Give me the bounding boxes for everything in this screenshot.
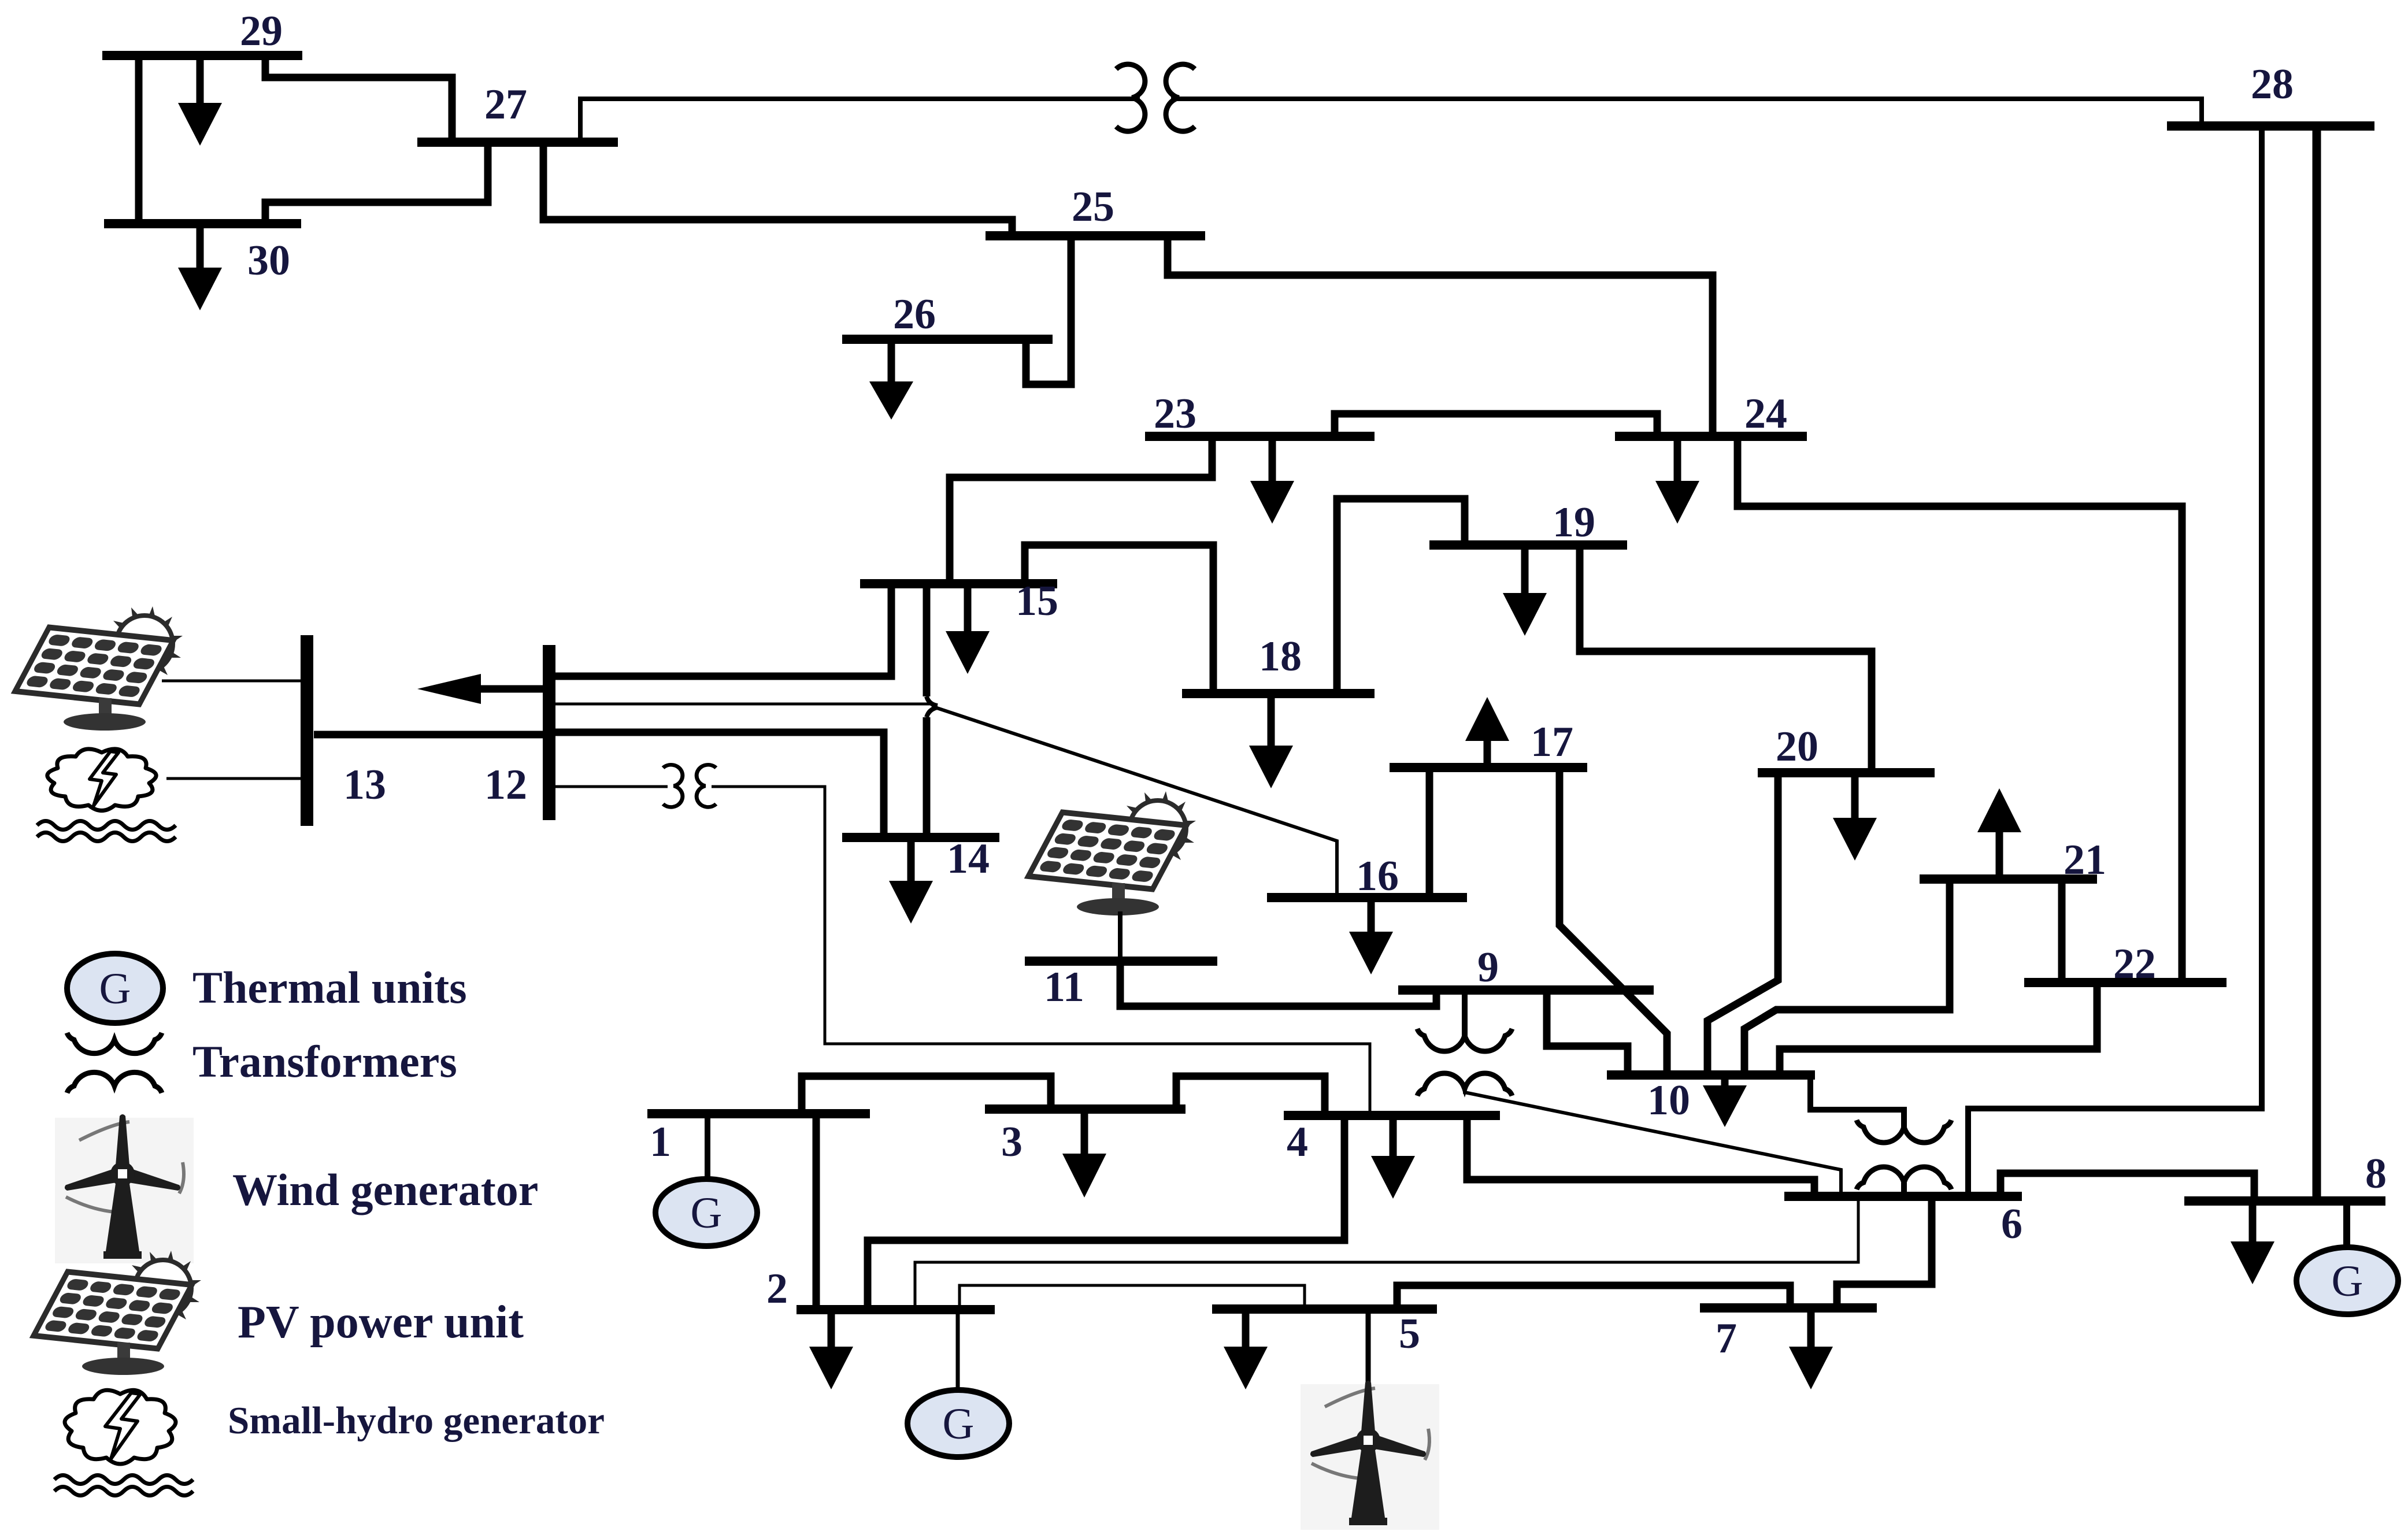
svg-text:24: 24 xyxy=(1744,390,1787,438)
svg-text:25: 25 xyxy=(1072,183,1114,231)
wire 2-6 (thin) xyxy=(915,1196,1858,1310)
thermal unit G1 (bus 1) xyxy=(655,1179,757,1246)
wire 20-10 xyxy=(1707,773,1778,1075)
svg-text:3: 3 xyxy=(1001,1118,1023,1166)
load arrow bus 14 xyxy=(889,835,990,924)
wire 4-6 xyxy=(1467,1115,1814,1196)
legend text Thermal units xyxy=(192,962,467,1013)
svg-text:6: 6 xyxy=(2001,1200,2022,1248)
bus 11 xyxy=(1025,961,1217,1011)
wire 27-28 left xyxy=(580,99,1140,142)
wire 6-28 xyxy=(1968,126,2262,1196)
bus 18 xyxy=(1182,633,1375,694)
load arrow bus 8 xyxy=(2231,1201,2274,1284)
legend wind generator symbol xyxy=(55,1114,194,1263)
wire node-16 diagonal xyxy=(932,706,1337,898)
load arrow bus 18 xyxy=(1249,694,1293,788)
wire T69-6 diagonal xyxy=(1465,1089,1841,1196)
wire 10-T610 xyxy=(1810,1075,1904,1127)
wire bus2-G2 xyxy=(956,1310,960,1392)
wire 15-14 via node xyxy=(927,584,938,837)
wire 2-5 (thin) xyxy=(960,1285,1305,1310)
legend PV power unit symbol xyxy=(34,1251,201,1375)
wire 9-10 xyxy=(1547,990,1628,1075)
svg-text:13: 13 xyxy=(343,761,386,809)
wire 11-9 xyxy=(1120,961,1436,1006)
load arrow bus 29 xyxy=(178,55,222,146)
wire 3-4 xyxy=(1176,1076,1325,1115)
legend text Transformers xyxy=(192,1036,457,1087)
transformer T6-10 xyxy=(1857,1120,1951,1189)
svg-text:15: 15 xyxy=(1016,577,1058,625)
bus 29 xyxy=(102,8,302,55)
bus 23 xyxy=(1145,390,1375,438)
svg-text:12: 12 xyxy=(484,761,527,809)
svg-text:10: 10 xyxy=(1647,1077,1690,1124)
thermal unit G2 (bus 2) xyxy=(907,1390,1009,1457)
bus 5 xyxy=(1212,1309,1437,1358)
bus 25 xyxy=(986,183,1205,236)
svg-text:Transformers: Transformers xyxy=(192,1036,457,1087)
bus 16 xyxy=(1267,852,1467,900)
wire 29-27 xyxy=(265,55,452,142)
wire bus1-G1 xyxy=(705,1114,710,1179)
wire 12-T412 xyxy=(555,785,668,788)
wire 1-2 xyxy=(813,1114,820,1310)
wind generator at bus 5 xyxy=(1301,1381,1439,1530)
load arrow bus 24 xyxy=(1655,436,1699,524)
load arrow bus 2 xyxy=(809,1310,853,1389)
svg-text:4: 4 xyxy=(1287,1118,1308,1166)
bus 17 xyxy=(1390,718,1587,768)
wire 19-20 xyxy=(1580,545,1872,773)
PV power unit at bus 13 xyxy=(15,606,183,731)
svg-text:8: 8 xyxy=(2365,1150,2387,1198)
wire 17-10 xyxy=(1559,768,1667,1075)
svg-text:21: 21 xyxy=(2064,836,2106,884)
wire 6-7 xyxy=(1837,1196,1932,1308)
wire 23-24 xyxy=(1335,414,1657,436)
svg-text:14: 14 xyxy=(947,835,990,883)
load arrow bus 26 xyxy=(869,339,913,420)
bus 21 xyxy=(1920,836,2106,884)
transformer T6-9 xyxy=(1417,1029,1512,1096)
bus 24 xyxy=(1615,390,1807,438)
load arrow bus 23 xyxy=(1250,436,1294,524)
legend small-hydro symbol xyxy=(54,1390,193,1495)
bus 26 xyxy=(842,291,1053,339)
legend text Small-hydro generator xyxy=(228,1399,605,1442)
wire 5-7 xyxy=(1397,1285,1790,1309)
bus 2 xyxy=(766,1265,995,1313)
svg-text:5: 5 xyxy=(1399,1310,1420,1358)
wire 27-28 right xyxy=(1171,99,2202,126)
svg-text:16: 16 xyxy=(1356,852,1399,900)
svg-text:PV power unit: PV power unit xyxy=(238,1297,524,1348)
bus 3 xyxy=(985,1109,1186,1166)
legend thermal units symbol xyxy=(67,954,163,1023)
load arrow bus 19 xyxy=(1503,545,1547,636)
wire 24-22 xyxy=(1738,436,2182,983)
bus 8 xyxy=(2184,1150,2387,1201)
svg-text:17: 17 xyxy=(1531,718,1573,766)
wire 9-T69 xyxy=(1462,990,1468,1036)
load arrow bus 15 xyxy=(946,584,990,674)
transformer T4-12 xyxy=(663,765,716,807)
svg-text:27: 27 xyxy=(484,81,527,128)
wire T412-4 (thin) xyxy=(712,787,1370,1115)
load arrow bus 5 xyxy=(1224,1309,1268,1389)
wire 8-28 xyxy=(2313,126,2321,1201)
bus 7 xyxy=(1700,1308,1877,1362)
wire 12-14 xyxy=(549,732,884,837)
svg-text:19: 19 xyxy=(1553,499,1595,546)
wire hydro-13 xyxy=(166,777,301,780)
wire 27-25 xyxy=(543,142,1012,236)
wire 29-30 xyxy=(135,55,143,224)
wire 22-10 xyxy=(1780,983,2097,1075)
wire 12-15 xyxy=(549,584,891,676)
svg-text:1: 1 xyxy=(650,1118,671,1166)
bus 19 xyxy=(1429,499,1627,546)
wire 12-node (thin) xyxy=(549,703,932,706)
wire 27-30 xyxy=(265,142,488,224)
wire 16-17 xyxy=(1426,768,1433,898)
svg-text:G: G xyxy=(2332,1257,2363,1306)
wire 12-13 xyxy=(314,731,543,739)
bus 13 (vertical) xyxy=(307,635,386,826)
legend text Wind generator xyxy=(232,1165,538,1215)
svg-text:2: 2 xyxy=(766,1265,788,1313)
svg-text:7: 7 xyxy=(1716,1315,1737,1362)
wire 2-4 xyxy=(868,1115,1344,1310)
svg-text:22: 22 xyxy=(2113,940,2156,988)
load arrow bus 12 (left) xyxy=(417,674,549,704)
wire 21-22 xyxy=(2058,879,2066,983)
svg-text:18: 18 xyxy=(1259,633,1302,680)
load arrow bus 4 xyxy=(1371,1115,1415,1199)
legend transformers symbol xyxy=(67,1033,162,1093)
bus 14 xyxy=(842,833,999,842)
PV power unit at bus 11 xyxy=(1028,791,1196,961)
load arrow bus 3 xyxy=(1062,1109,1106,1198)
wire 25-26 xyxy=(1026,236,1071,384)
load arrow bus 10 xyxy=(1703,1075,1747,1127)
bus 15 xyxy=(860,577,1058,625)
bus 1 xyxy=(647,1114,870,1166)
svg-text:28: 28 xyxy=(2251,61,2294,108)
bus 4 xyxy=(1284,1115,1500,1166)
bus 20 xyxy=(1758,723,1935,773)
svg-text:20: 20 xyxy=(1776,723,1818,770)
wire 15-23 xyxy=(950,436,1212,584)
svg-text:30: 30 xyxy=(247,237,290,284)
bus 22 xyxy=(2024,940,2227,988)
bus 9 xyxy=(1398,944,1654,991)
wire bus8-G3 xyxy=(2343,1201,2350,1250)
gen arrow bus 17 (up) xyxy=(1465,697,1509,768)
wire 25-24 xyxy=(1168,236,1713,436)
bus 30 xyxy=(104,224,301,284)
load arrow bus 30 xyxy=(178,224,222,310)
wire 6-8 xyxy=(2001,1173,2254,1201)
wire 1-3 xyxy=(802,1076,1051,1114)
gen arrow bus 21 (up) xyxy=(1977,788,2021,879)
svg-text:Small-hydro generator: Small-hydro generator xyxy=(228,1399,605,1442)
svg-text:9: 9 xyxy=(1477,944,1499,991)
bus 12 (vertical) xyxy=(484,645,549,820)
load arrow bus 20 xyxy=(1833,773,1877,861)
wire T610-6 xyxy=(1901,1182,1907,1196)
load arrow bus 16 xyxy=(1349,898,1393,974)
thermal unit G3 (bus 8) xyxy=(2296,1247,2398,1314)
wire 21-10 xyxy=(1744,879,1950,1075)
bus 6 xyxy=(1784,1196,2022,1248)
svg-text:11: 11 xyxy=(1044,963,1084,1011)
legend text PV power unit xyxy=(238,1297,524,1348)
svg-text:Thermal units: Thermal units xyxy=(192,962,467,1013)
bus 10 xyxy=(1607,1075,1815,1124)
wire bus5-wind xyxy=(1366,1309,1371,1393)
svg-text:G: G xyxy=(943,1400,975,1448)
wire 15-18 xyxy=(1025,545,1213,694)
svg-text:G: G xyxy=(99,965,131,1013)
svg-text:Wind generator: Wind generator xyxy=(232,1165,538,1215)
load arrow bus 7 xyxy=(1789,1308,1833,1389)
wire 18-19 xyxy=(1337,499,1465,694)
wire PV-13 xyxy=(162,680,301,683)
svg-text:26: 26 xyxy=(893,291,936,338)
transformer T27-28 xyxy=(1116,64,1195,131)
svg-text:29: 29 xyxy=(240,8,283,55)
bus 28 xyxy=(2167,61,2374,126)
bus 27 xyxy=(417,81,618,142)
svg-text:23: 23 xyxy=(1154,390,1196,438)
svg-text:G: G xyxy=(691,1189,723,1237)
small-hydro generator at bus 13 xyxy=(37,749,176,842)
